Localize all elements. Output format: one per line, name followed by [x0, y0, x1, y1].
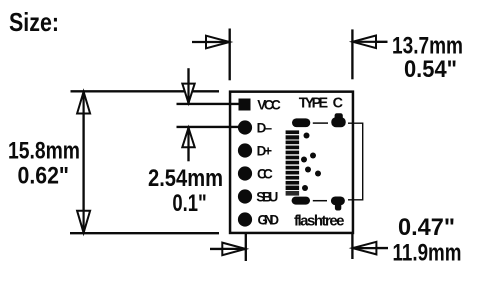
svg-text:CC: CC — [257, 167, 273, 182]
svg-text:GND: GND — [258, 213, 280, 228]
svg-text:0.1": 0.1" — [172, 190, 206, 217]
svg-text:TYPE: TYPE — [299, 96, 329, 112]
svg-text:0.47": 0.47" — [398, 214, 455, 241]
svg-text:flashtree: flashtree — [294, 213, 345, 230]
svg-text:D+: D+ — [257, 144, 273, 159]
svg-text:D–: D– — [257, 121, 273, 136]
svg-text:SBU: SBU — [256, 190, 278, 205]
svg-text:11.9mm: 11.9mm — [393, 240, 462, 267]
svg-text:15.8mm: 15.8mm — [8, 138, 80, 165]
svg-text:2.54mm: 2.54mm — [148, 165, 223, 192]
svg-text:0.54": 0.54" — [404, 56, 457, 83]
svg-text:C: C — [333, 96, 343, 112]
svg-text:Size:: Size: — [9, 7, 59, 37]
svg-text:0.62": 0.62" — [18, 163, 70, 190]
svg-text:VCC: VCC — [257, 97, 281, 112]
